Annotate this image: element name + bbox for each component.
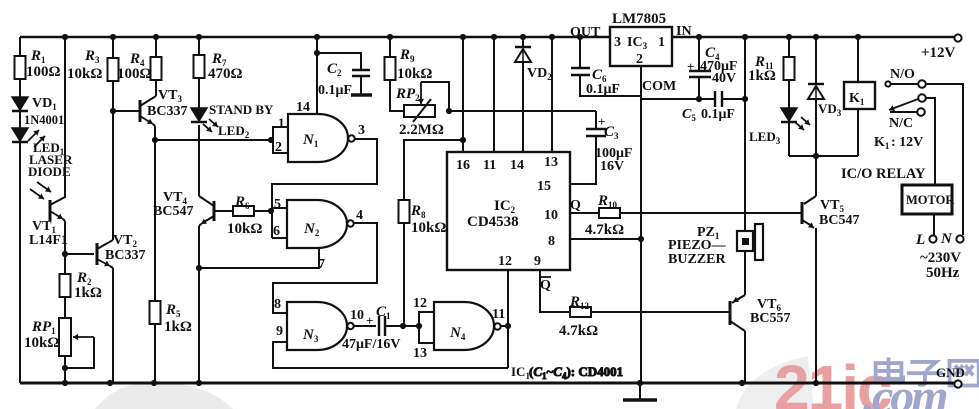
svg-text:1N4001: 1N4001: [24, 113, 64, 127]
wire VT4 emitter down: [196, 226, 202, 386]
terminal +12V: [921, 34, 962, 61]
wire buzzer to VT6 emitter: [744, 251, 746, 295]
wire N3 pin9 feedback: [273, 342, 508, 368]
label N1 pin 14: [296, 100, 310, 115]
wire LED2 to VT4 collector: [198, 125, 200, 196]
svg-text:+: +: [366, 313, 373, 328]
svg-text:5: 5: [274, 197, 281, 212]
wire R4 top: [155, 37, 157, 57]
node top-rail/VT1 collector: [62, 34, 68, 40]
svg-text:0.1μF: 0.1μF: [701, 107, 735, 122]
transistor VT4 BC547: [153, 190, 214, 226]
resistor R8: [399, 200, 447, 236]
wire R4 to VT3 collector: [155, 80, 157, 96]
wire C4 bottom to GND line: [641, 98, 699, 100]
svg-text:BUZZER: BUZZER: [668, 252, 726, 267]
LED LED2 stand-by: [191, 102, 274, 140]
capacitor C5 0.1uF: [682, 91, 748, 123]
svg-text:L: L: [915, 232, 925, 248]
resistor R12: [559, 294, 598, 339]
wire VT3 emitter to R5: [154, 140, 156, 301]
wire VD2 to pin14 upper: [522, 37, 524, 47]
label K1 12V: [874, 135, 923, 151]
svg-text:11: 11: [492, 307, 505, 322]
svg-text:IN: IN: [676, 24, 692, 39]
svg-text:11: 11: [483, 158, 496, 173]
node top-rail/R4: [153, 34, 159, 40]
node top-rail/C2-N1: [314, 34, 320, 40]
label N3 pin 10: [350, 308, 364, 323]
svg-text:Q: Q: [570, 198, 581, 213]
label IC2 pin 16: [456, 158, 470, 173]
wire left branch R1 chain vertical: [19, 37, 21, 383]
relay contact N/C: [889, 99, 925, 131]
capacitor C4 470uF electrolytic: [687, 37, 738, 102]
svg-text:3: 3: [614, 35, 621, 50]
resistor R5: [150, 301, 192, 335]
svg-text:16: 16: [456, 158, 470, 173]
resistor R9: [385, 37, 433, 82]
wire R7 top: [198, 37, 200, 55]
label IC/O RELAY: [841, 166, 926, 182]
wire R6 to N2 input node: [254, 208, 274, 214]
wire VT3 emitter to N1 input: [155, 137, 274, 143]
svg-text:Q: Q: [540, 278, 551, 293]
svg-text:1kΩ: 1kΩ: [74, 285, 102, 301]
wire +5V top rail: [20, 36, 610, 39]
svg-text:10kΩ: 10kΩ: [67, 66, 102, 82]
resistor R7: [194, 51, 243, 82]
relay coil K1: [844, 37, 875, 156]
wire IC2 pin15 to C3: [570, 137, 596, 184]
wire IC2 pin9 to R12: [540, 270, 570, 312]
node top-rail/VD2: [520, 34, 526, 40]
wire LED3 to junction: [788, 122, 790, 156]
wire VT4 base to R6: [214, 210, 233, 212]
svg-text:15: 15: [537, 179, 551, 194]
wire IC2 pin10 Q to R10: [570, 212, 599, 214]
resistor R4: [117, 51, 162, 82]
label N3 pin 9: [276, 324, 283, 339]
potentiometer RP1 10k: [24, 318, 94, 356]
ground symbol (COM): [623, 383, 657, 400]
phototransistor VT1 L14F1: [29, 182, 68, 248]
svg-text:.com: .com: [863, 370, 947, 409]
svg-text:4.7kΩ: 4.7kΩ: [559, 323, 598, 339]
wire IC2 pin8 to GND line: [570, 236, 644, 242]
svg-text:1kΩ: 1kΩ: [748, 68, 776, 84]
wire RP2 to C3/pin15 node: [449, 110, 596, 112]
wire N4 output pin11 node: [501, 270, 511, 368]
label IC2 pin 8: [548, 234, 555, 249]
relay common pole: [918, 94, 935, 185]
wire VT1 collector: [64, 37, 66, 198]
transistor VT5 BC547: [802, 196, 859, 228]
label N2 pin 6: [273, 224, 280, 239]
svg-text:9: 9: [534, 254, 541, 269]
svg-text:8: 8: [548, 234, 555, 249]
label N/O: [890, 67, 915, 82]
wire IC2 pin16 to rail: [462, 37, 464, 152]
label N1 pin 2: [275, 140, 282, 155]
svg-text:BC337: BC337: [147, 104, 187, 119]
capacitor C2 0.1uF: [317, 53, 372, 98]
wire N2 output pin4 to N3 pin8: [273, 223, 377, 313]
label IN: [676, 24, 692, 39]
node +12V rail/VD3: [813, 34, 819, 40]
buzzer PZ1 piezo: [668, 224, 763, 267]
svg-text:1: 1: [658, 35, 665, 50]
wire IC2 pin12 down: [0, 0, 1, 1]
label OUT: [570, 25, 601, 40]
wire IC2 pin13 to rail: [551, 37, 553, 152]
wire VT2 emitter to GND rail: [107, 268, 113, 386]
node top-rail/pin16: [460, 34, 466, 40]
svg-text:50Hz: 50Hz: [926, 265, 960, 281]
wire VT3 emitter down: [152, 126, 158, 143]
wire R5 to GND rail: [151, 324, 157, 386]
relay contact N/O: [885, 80, 963, 235]
wire N2 pin7: [199, 247, 319, 268]
wire IC2 pin11 to rail: [493, 37, 495, 152]
label IC2 pin 15: [537, 179, 551, 194]
wire R10 to VT5 base: [620, 212, 801, 214]
node top-rail/pin11: [491, 34, 497, 40]
svg-text:13: 13: [544, 155, 558, 170]
svg-text:6: 6: [273, 224, 280, 239]
label N1 pin 3: [358, 123, 365, 138]
node +12V rail/R11: [786, 34, 792, 40]
node +12V rail/buzzer: [742, 34, 748, 40]
svg-text:~230V: ~230V: [920, 250, 961, 266]
label N1 pin 1: [278, 115, 285, 130]
svg-text:L14F1: L14F1: [29, 233, 68, 248]
wire GND bottom rail: [20, 382, 954, 385]
node top-rail/pin13: [549, 34, 555, 40]
svg-text:GND: GND: [936, 365, 965, 380]
transistor VT3 BC337: [140, 88, 187, 126]
svg-text:BC547: BC547: [153, 204, 193, 219]
node top-rail/R9: [387, 34, 393, 40]
svg-text:MOTOR: MOTOR: [906, 193, 955, 207]
wire N4 input bracket: [419, 312, 434, 343]
wire N1 input bracket: [273, 127, 288, 153]
gate N2 (CD4001 NAND): [287, 200, 354, 248]
wire buzzer top: [744, 37, 746, 231]
wire VT6 collector to GND rail: [739, 331, 745, 386]
wire N1 pin14: [314, 37, 320, 114]
wire R3 top: [112, 37, 114, 58]
svg-text:16V: 16V: [600, 159, 624, 174]
svg-text:CD4538: CD4538: [467, 214, 519, 230]
wire VD2 to IC2 pin14: [522, 61, 524, 152]
gate N1 (CD4001 NAND): [288, 114, 355, 162]
svg-text:13: 13: [413, 346, 427, 361]
capacitor C3 100uF electrolytic: [586, 111, 633, 174]
svg-text:N: N: [940, 231, 953, 247]
svg-text:470Ω: 470Ω: [208, 66, 243, 82]
label N4 pin 12: [413, 296, 427, 311]
IC U3 LM7805: [610, 11, 672, 67]
diode VD1 1N4001: [12, 96, 64, 127]
gate N3 (CD4001 NAND): [287, 302, 354, 350]
label Q output: [570, 198, 581, 213]
wire VT5 emitter to GND rail: [813, 228, 819, 386]
wire R3 to VT3 base / VT2 collector: [110, 81, 116, 240]
label IC1 note: [511, 364, 623, 381]
wire RP1 bottom to GND rail: [62, 356, 68, 386]
svg-text:4: 4: [356, 208, 363, 223]
watermark decorations: [95, 356, 814, 409]
label IC2 pin 12: [498, 254, 512, 269]
svg-text:14: 14: [510, 158, 524, 173]
node top-rail/R7: [196, 34, 202, 40]
label N2 pin 7: [318, 257, 325, 272]
svg-text:40V: 40V: [712, 71, 736, 86]
wire LED3/VD3/K1 junction: [789, 155, 858, 157]
label N2 pin 4: [356, 208, 363, 223]
svg-text:N/C: N/C: [889, 116, 913, 131]
transistor VT2 BC337: [97, 233, 145, 268]
svg-text:10kΩ: 10kΩ: [227, 221, 262, 237]
svg-text:10kΩ: 10kΩ: [397, 66, 432, 82]
svg-text:LM7805: LM7805: [612, 11, 666, 27]
resistor R6: [227, 194, 262, 237]
label N2 pin 5: [274, 197, 281, 212]
svg-text:OUT: OUT: [570, 25, 601, 40]
LED LED1 laser diode: [12, 128, 73, 179]
wire VD3 down: [813, 98, 819, 196]
diode VD2: [515, 47, 552, 82]
svg-text:0.1μF: 0.1μF: [318, 83, 352, 98]
label 50Hz: [926, 265, 960, 281]
resistor R1: [15, 48, 61, 80]
svg-text:IC/O RELAY: IC/O RELAY: [841, 166, 926, 182]
label Q-bar output: [539, 277, 551, 293]
svg-text:COM: COM: [642, 79, 676, 94]
label IC2 pin 14: [510, 158, 524, 173]
node top-rail/R3: [110, 34, 116, 40]
label N3 pin 8: [274, 297, 281, 312]
svg-text:12: 12: [413, 296, 427, 311]
svg-text:3: 3: [358, 123, 365, 138]
wire VT3 base lead: [113, 110, 139, 112]
terminal L: [915, 232, 937, 248]
label ~230V: [920, 250, 961, 266]
label IC2 pin 10: [544, 208, 558, 223]
resistor R11: [748, 37, 795, 84]
resistor R2: [60, 270, 102, 301]
wire VT1 emitter to VT2 base: [65, 253, 94, 255]
node +12V rail/C4: [696, 34, 702, 40]
wire +12V top rail: [672, 36, 954, 39]
svg-text:1kΩ: 1kΩ: [164, 319, 192, 335]
IC U2 CD4538 outline: [447, 152, 570, 270]
svg-text:10: 10: [350, 308, 364, 323]
LED LED3: [749, 80, 810, 146]
capacitor C1 47uF/16V: [342, 304, 422, 352]
resistor R10: [585, 193, 624, 238]
wire R7 to LED2: [198, 78, 200, 108]
wire RP1 wiper loop: [62, 337, 94, 371]
svg-text:0.1μF: 0.1μF: [586, 82, 620, 97]
label COM: [642, 79, 676, 94]
node +12V rail/K1: [855, 34, 861, 40]
svg-text:+12V: +12V: [921, 45, 956, 61]
wire R12 to VT6 base: [591, 311, 729, 313]
terminal N: [940, 231, 964, 247]
svg-text:BC557: BC557: [750, 311, 790, 326]
svg-text:2: 2: [636, 52, 643, 67]
resistor R3: [67, 48, 119, 82]
wire LM7805 COM/GND line: [637, 66, 643, 386]
svg-text:10: 10: [544, 208, 558, 223]
svg-text:BC337: BC337: [105, 248, 145, 263]
motor M: [902, 185, 955, 214]
svg-text:2.2MΩ: 2.2MΩ: [399, 122, 444, 138]
svg-text:100Ω: 100Ω: [26, 64, 61, 80]
diode VD3 flyback: [808, 37, 842, 118]
wire R8 top: [404, 137, 466, 200]
svg-text:9: 9: [276, 324, 283, 339]
terminal GND: [936, 365, 965, 388]
svg-text:: 12V: : 12V: [891, 135, 923, 150]
transistor VT6 BC557: [730, 295, 790, 331]
svg-text:4.7kΩ: 4.7kΩ: [585, 222, 624, 238]
label N4 pin 11: [492, 307, 505, 322]
label N4 pin 13: [413, 346, 427, 361]
svg-text:14: 14: [296, 100, 310, 115]
capacitor C6 0.1uF: [571, 37, 641, 97]
svg-text:STAND BY: STAND BY: [209, 102, 274, 117]
wire VT1 emitter to R2: [62, 221, 68, 274]
svg-text:8: 8: [274, 297, 281, 312]
wire motor to L terminal: [933, 214, 935, 235]
svg-text:100Ω: 100Ω: [117, 66, 152, 82]
svg-text:10kΩ: 10kΩ: [24, 335, 59, 351]
label IC2 pin 13: [544, 155, 558, 170]
svg-text:PIEZO—: PIEZO—: [668, 238, 727, 253]
svg-text:N/O: N/O: [890, 67, 915, 82]
potentiometer RP2 2.2M: [395, 82, 452, 138]
svg-text:12: 12: [498, 254, 512, 269]
node top-rail/C6: [577, 34, 583, 40]
svg-text:47μF/16V: 47μF/16V: [342, 337, 401, 352]
svg-text:10kΩ: 10kΩ: [411, 220, 446, 236]
label IC2 pin 9: [534, 254, 541, 269]
gate N4 (CD4001 NAND): [434, 302, 501, 350]
wire R9 to RP2: [390, 80, 404, 111]
wire R2 to RP1: [64, 297, 66, 318]
svg-text:BC547: BC547: [819, 213, 859, 228]
wire R8 bottom to C1 node: [403, 223, 405, 326]
label IC2 pin 11: [483, 158, 496, 173]
wire N1 output pin3 to N2 input: [272, 139, 377, 238]
